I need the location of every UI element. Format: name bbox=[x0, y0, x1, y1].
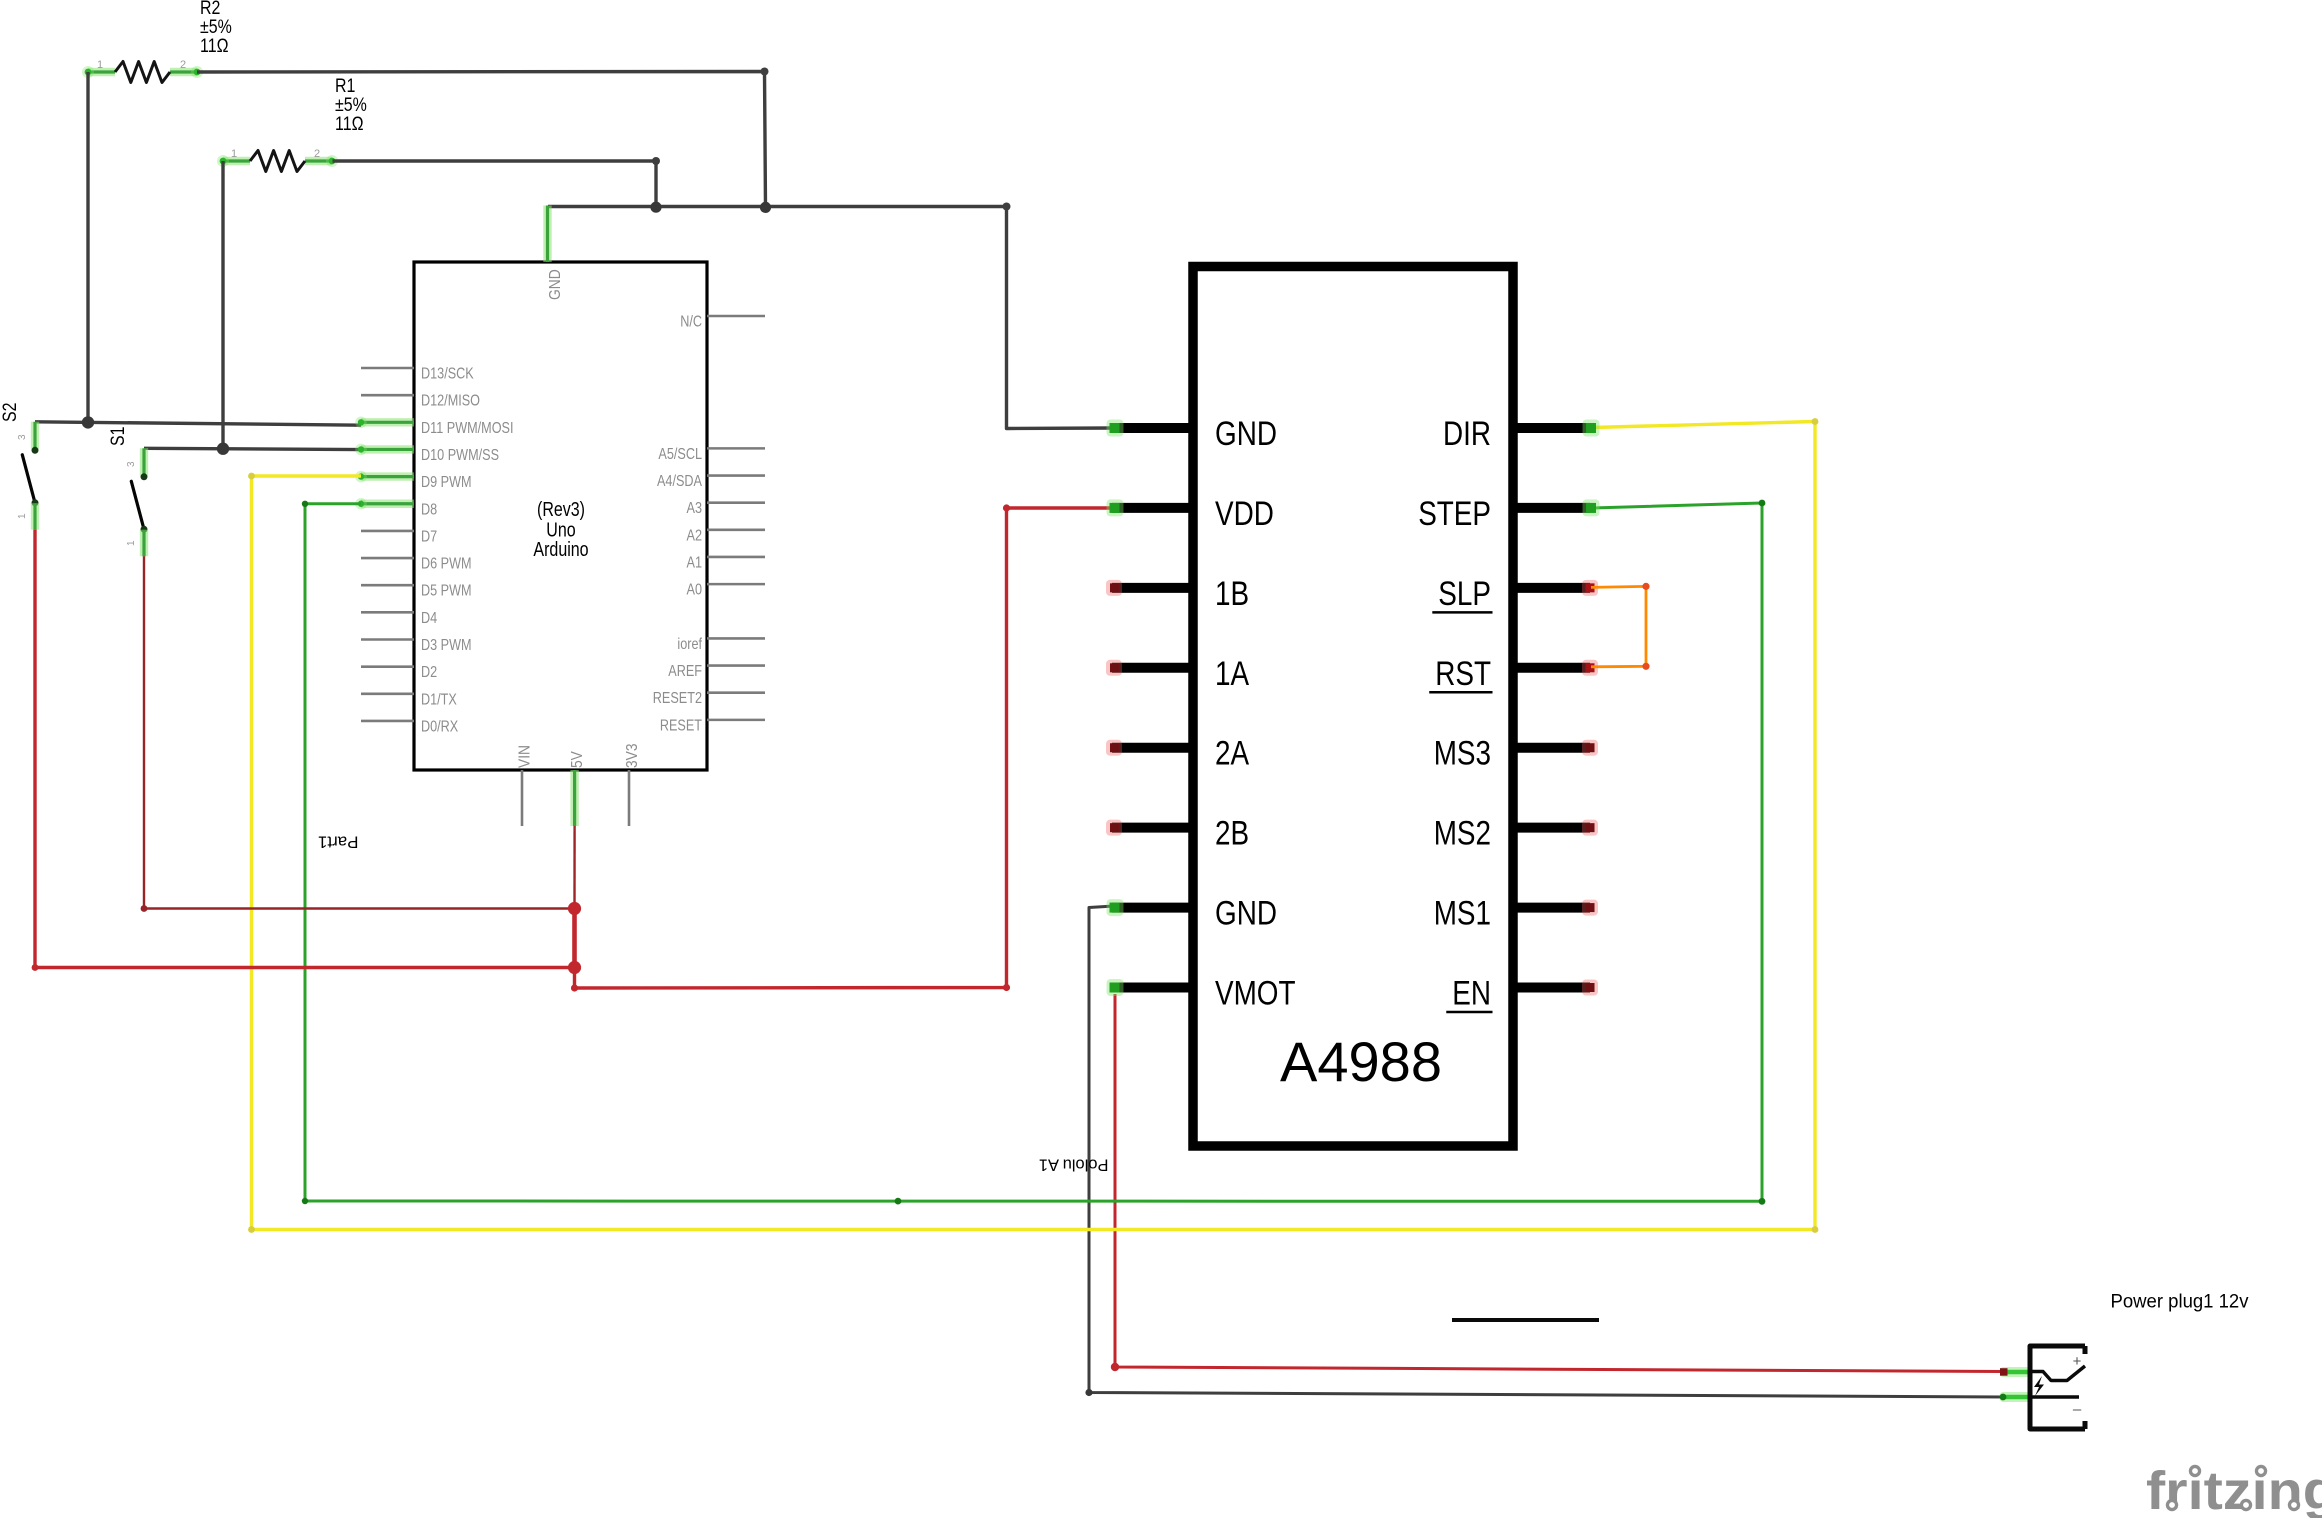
arduino pin D8 bbox=[361, 500, 414, 508]
svg-text:1B: 1B bbox=[1215, 575, 1249, 613]
svg-text:GND: GND bbox=[547, 269, 564, 300]
a4988 pin GND (left row 1) bbox=[1112, 423, 1197, 433]
arduino pin A3 bbox=[707, 501, 765, 504]
junction R2 / GND net bbox=[760, 202, 771, 213]
svg-text:D9 PWM: D9 PWM bbox=[421, 474, 472, 491]
arduino pin D4 bbox=[361, 611, 414, 614]
svg-text:RESET2: RESET2 bbox=[653, 690, 702, 707]
power plug P1 body bbox=[2030, 1346, 2085, 1429]
arduino pin ioref bbox=[707, 637, 765, 640]
svg-text:A3: A3 bbox=[687, 500, 703, 517]
svg-text:GND: GND bbox=[1215, 415, 1277, 453]
svg-text:D3 PWM: D3 PWM bbox=[421, 637, 472, 654]
arduino pin D13/SCK bbox=[361, 367, 414, 370]
svg-text:–: – bbox=[2073, 1401, 2082, 1418]
svg-text:5V: 5V bbox=[569, 751, 586, 768]
wire SLP to RST jumper (orange) bbox=[1591, 586, 1646, 666]
svg-text:A1: A1 bbox=[687, 554, 703, 571]
svg-text:1: 1 bbox=[126, 540, 137, 546]
arduino Part1 body bbox=[414, 262, 707, 770]
svg-text:2B: 2B bbox=[1215, 815, 1249, 853]
svg-text:3: 3 bbox=[126, 461, 137, 467]
svg-text:S2: S2 bbox=[0, 403, 21, 423]
a4988 pin MS2 (right row 6) bbox=[1509, 823, 1590, 833]
wire A4988 GND to power plug - (gray) bbox=[1089, 906, 2030, 1397]
junction 5V / S2 wire bbox=[568, 961, 581, 974]
svg-text:1: 1 bbox=[97, 59, 103, 71]
a4988 pin RST (right row 4) bbox=[1509, 663, 1590, 673]
svg-text:1: 1 bbox=[17, 513, 28, 519]
svg-text:D4: D4 bbox=[421, 610, 437, 627]
svg-text:11Ω: 11Ω bbox=[335, 114, 364, 135]
svg-text:S1: S1 bbox=[108, 427, 129, 447]
a4988 pin VDD (left row 2) bbox=[1112, 503, 1197, 513]
svg-text:STEP: STEP bbox=[1418, 495, 1491, 533]
green wire bendpoint bbox=[895, 1198, 902, 1205]
svg-text:D6 PWM: D6 PWM bbox=[421, 556, 472, 573]
svg-text:R1: R1 bbox=[335, 76, 355, 97]
svg-text:MS3: MS3 bbox=[1434, 735, 1491, 773]
svg-text:D2: D2 bbox=[421, 664, 437, 681]
svg-text:N/C: N/C bbox=[680, 314, 702, 331]
svg-text:2A: 2A bbox=[1215, 735, 1249, 773]
a4988 pin 2B (left row 6) bbox=[1112, 823, 1197, 833]
switch S2 bbox=[31, 422, 39, 450]
svg-text:A2: A2 bbox=[687, 527, 703, 544]
svg-text:2: 2 bbox=[314, 148, 320, 160]
svg-text:RST: RST bbox=[1435, 655, 1491, 693]
arduino pin GND (top, connected) bbox=[543, 206, 551, 263]
arduino pin A1 bbox=[707, 556, 765, 559]
resistor R1 bbox=[223, 157, 250, 165]
arduino pin AREF bbox=[707, 664, 765, 667]
a4988 pin 2A (left row 5) bbox=[1112, 743, 1197, 753]
svg-text:D8: D8 bbox=[421, 501, 437, 518]
arduino pin D0/RX bbox=[361, 720, 414, 723]
svg-text:2: 2 bbox=[180, 59, 186, 71]
wire power plug + entry (dark red) bbox=[2004, 1370, 2030, 1373]
arduino pin D11 PWM/MOSI bbox=[361, 418, 414, 426]
svg-text:GND: GND bbox=[1215, 895, 1277, 933]
arduino pin A5/SCL bbox=[707, 447, 765, 450]
a4988 pin DIR (right row 1) bbox=[1509, 423, 1590, 433]
power plug P1 terminal highlight + bbox=[2000, 1367, 2032, 1377]
arduino pin D3 PWM bbox=[361, 638, 414, 641]
svg-text:AREF: AREF bbox=[668, 663, 702, 680]
svg-text:D0/RX: D0/RX bbox=[421, 718, 458, 735]
arduino pin D5 PWM bbox=[361, 584, 414, 587]
svg-text:+: + bbox=[2073, 1353, 2082, 1370]
svg-text:±5%: ±5% bbox=[200, 17, 232, 38]
svg-text:EN: EN bbox=[1452, 975, 1491, 1013]
wire Arduino GND to A4988 GND (top net) bbox=[548, 207, 1113, 429]
wire A4988 VMOT to power plug + (red) bbox=[1115, 994, 2004, 1372]
svg-text:MS1: MS1 bbox=[1434, 895, 1491, 933]
wire R2 pin2 to GND net bbox=[197, 72, 766, 208]
arduino pin D10 PWM/SS bbox=[361, 445, 414, 453]
svg-text:D11 PWM/MOSI: D11 PWM/MOSI bbox=[421, 420, 514, 437]
junction R1 / GND net bbox=[650, 202, 661, 213]
a4988 Pololu A1 body bbox=[1193, 267, 1513, 1147]
svg-text:A4/SDA: A4/SDA bbox=[657, 473, 702, 490]
svg-text:VDD: VDD bbox=[1215, 495, 1274, 533]
svg-text:D13/SCK: D13/SCK bbox=[421, 366, 474, 383]
a4988 pin GND (left row 7) bbox=[1112, 903, 1197, 913]
arduino pin RESET bbox=[707, 719, 765, 722]
svg-text:11Ω: 11Ω bbox=[200, 36, 229, 57]
arduino pin D9 PWM bbox=[361, 472, 414, 480]
junction R2 / S2 / D11 bbox=[82, 416, 94, 428]
svg-text:ioref: ioref bbox=[677, 636, 702, 653]
arduino pin 5V (connected) bbox=[570, 770, 578, 826]
wire S1 to Arduino D10 bbox=[144, 448, 361, 449]
svg-text:Power plug1 12v: Power plug1 12v bbox=[2111, 1291, 2249, 1313]
svg-text:Arduino: Arduino bbox=[533, 539, 588, 561]
svg-text:A5/SCL: A5/SCL bbox=[658, 446, 702, 463]
svg-text:D12/MISO: D12/MISO bbox=[421, 393, 480, 410]
svg-text:D5 PWM: D5 PWM bbox=[421, 583, 472, 600]
svg-text:D7: D7 bbox=[421, 528, 437, 545]
a4988 pin SLP (right row 3) bbox=[1509, 583, 1590, 593]
svg-text:1: 1 bbox=[231, 148, 237, 160]
arduino pin D12/MISO bbox=[361, 394, 414, 397]
arduino pin A0 bbox=[707, 583, 765, 586]
power plug lightning bolt bbox=[2034, 1376, 2044, 1396]
svg-text:3: 3 bbox=[17, 434, 28, 440]
power plug P1 terminal highlight - bbox=[2000, 1392, 2032, 1402]
wire Arduino D8 to A4988 STEP (green) bbox=[305, 503, 1762, 1201]
a4988 pin MS3 (right row 5) bbox=[1509, 743, 1590, 753]
svg-text:3V3: 3V3 bbox=[624, 744, 641, 769]
svg-text:D1/TX: D1/TX bbox=[421, 691, 457, 708]
separator line above power plug bbox=[1452, 1318, 1599, 1322]
svg-text:A0: A0 bbox=[687, 582, 703, 599]
a4988 pin MS1 (right row 7) bbox=[1509, 903, 1590, 913]
a4988 pin 1A (left row 4) bbox=[1112, 663, 1197, 673]
arduino pin 3V3 bbox=[628, 770, 631, 826]
arduino pin D1/TX bbox=[361, 692, 414, 695]
wire Arduino 5V down to S1 junction (red, thin) bbox=[573, 826, 575, 909]
wire R1 pin1 down to S1/D10 net bbox=[221, 161, 224, 449]
arduino pin D7 bbox=[361, 530, 414, 533]
arduino pin D2 bbox=[361, 665, 414, 668]
wire S2 pin1 to 5V junction (red) bbox=[35, 530, 575, 968]
a4988 pin VMOT (left row 8) bbox=[1112, 983, 1197, 993]
arduino pin VIN bbox=[521, 770, 524, 826]
wire 5V to A4988 VDD (red) bbox=[575, 508, 1114, 988]
wire Arduino D9 to A4988 DIR (yellow) bbox=[252, 422, 1816, 1230]
svg-text:VIN: VIN bbox=[517, 745, 534, 768]
a4988 pin STEP (right row 2) bbox=[1509, 503, 1590, 513]
power plug - wire end marker bbox=[2000, 1394, 2007, 1401]
wire R1 pin2 to GND net bbox=[333, 161, 657, 208]
svg-text:A4988: A4988 bbox=[1280, 1030, 1442, 1093]
svg-text:1A: 1A bbox=[1215, 655, 1249, 693]
junction 5V / S1 wire bbox=[568, 902, 581, 915]
arduino pin RESET2 bbox=[707, 691, 765, 694]
svg-text:VMOT: VMOT bbox=[1215, 975, 1296, 1013]
wire S2 to Arduino D11 bbox=[35, 422, 361, 425]
arduino pin D6 PWM bbox=[361, 557, 414, 560]
a4988 pin 1B (left row 3) bbox=[1112, 583, 1197, 593]
a4988 pin EN (right row 8) bbox=[1509, 983, 1590, 993]
arduino pin N/C bbox=[707, 315, 765, 318]
svg-text:Part1: Part1 bbox=[318, 833, 359, 852]
switch S1 bbox=[140, 448, 148, 476]
svg-text:MS2: MS2 bbox=[1434, 815, 1491, 853]
wire R2 pin1 down to S2/D11 net bbox=[86, 72, 89, 422]
resistor R2 bbox=[88, 68, 115, 76]
svg-text:±5%: ±5% bbox=[335, 95, 367, 116]
svg-text:RESET: RESET bbox=[660, 717, 702, 734]
arduino pin A2 bbox=[707, 529, 765, 532]
junction R1 / S1 / D10 bbox=[217, 443, 229, 455]
svg-text:DIR: DIR bbox=[1443, 415, 1491, 453]
arduino pin A4/SDA bbox=[707, 474, 765, 477]
wire S1 pin1 to 5V junction (red) bbox=[144, 556, 575, 908]
svg-text:(Rev3): (Rev3) bbox=[537, 499, 585, 521]
svg-text:SLP: SLP bbox=[1438, 575, 1491, 613]
svg-text:Pololu A1: Pololu A1 bbox=[1039, 1156, 1109, 1174]
power plug + wire end marker bbox=[2000, 1368, 2008, 1376]
wire 5V trunk between junctions (red, thick) bbox=[572, 908, 577, 968]
svg-text:D10 PWM/SS: D10 PWM/SS bbox=[421, 447, 499, 464]
